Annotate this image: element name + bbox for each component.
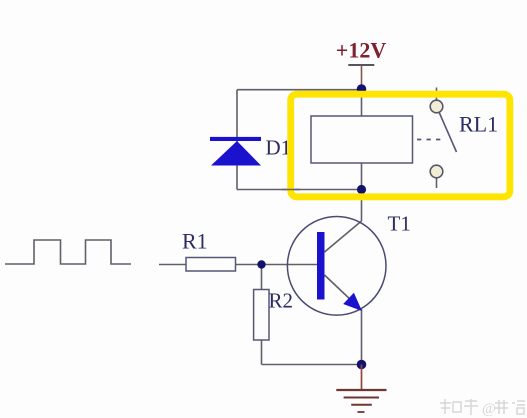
svg-text:R2: R2 <box>269 289 294 313</box>
svg-text:RL1: RL1 <box>459 112 498 137</box>
svg-text:T1: T1 <box>388 212 411 236</box>
svg-text:R1: R1 <box>182 229 208 254</box>
svg-text:@: @ <box>482 401 496 417</box>
svg-text:+12V: +12V <box>336 38 387 63</box>
